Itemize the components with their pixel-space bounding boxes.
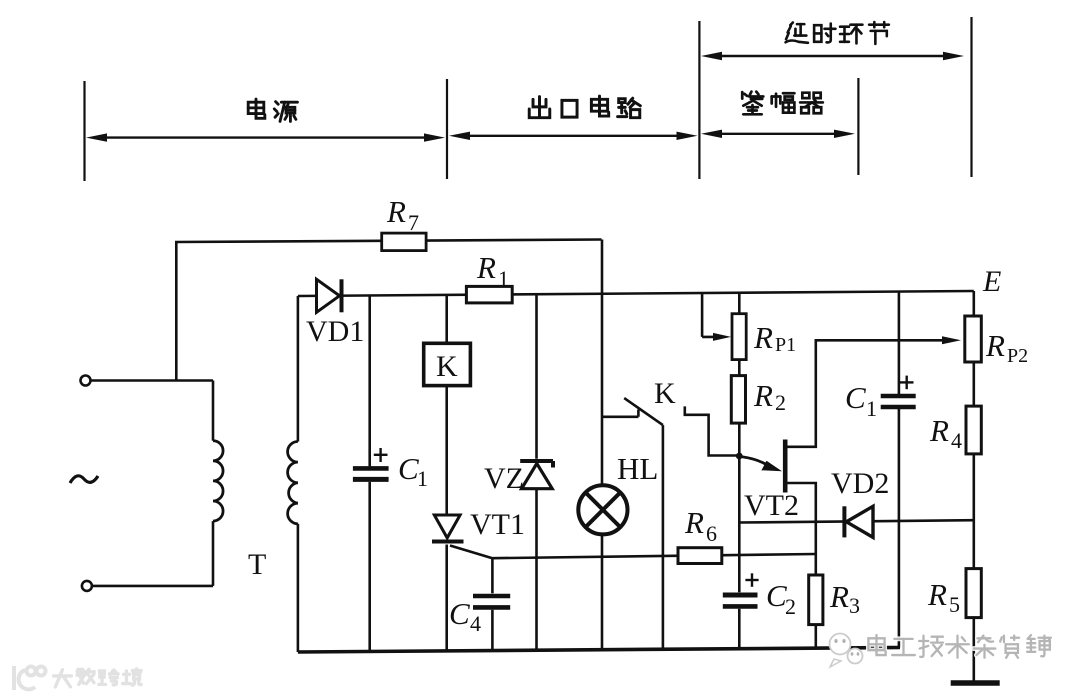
zener VZ [520, 461, 553, 489]
wire HL rail [601, 240, 604, 650]
wire R7 top run [176, 240, 601, 381]
resistor R2 [731, 376, 745, 424]
wire R3 rail [814, 554, 817, 648]
tick T1 [83, 81, 85, 181]
junction dot [736, 453, 743, 460]
watermark right wechat icon [830, 634, 863, 668]
relay coil K box [424, 343, 471, 385]
svg-text:K: K [654, 377, 676, 410]
svg-text:3: 3 [849, 593, 860, 618]
wire K-switch right drop [662, 425, 665, 649]
watermark left logo [14, 666, 46, 690]
thyristor VT1 [432, 515, 464, 542]
svg-text:VZ: VZ [484, 462, 524, 495]
svg-text:VT1: VT1 [470, 508, 525, 541]
label 鉴幅器 [742, 92, 823, 115]
svg-text:4: 4 [470, 611, 481, 636]
resistor R3 [809, 575, 823, 625]
wire VT1 gate diagonal [450, 546, 492, 559]
AC tilde [70, 476, 98, 483]
resistor R6 [678, 548, 722, 564]
svg-text:VT2: VT2 [744, 489, 799, 522]
svg-text:T: T [248, 548, 266, 581]
svg-text:VD2: VD2 [831, 467, 889, 500]
terminal circle top [81, 376, 91, 386]
wire RP1 wiper stub [702, 293, 716, 337]
wire VD2 line [739, 520, 974, 522]
svg-text:1: 1 [866, 396, 877, 421]
lamp HL [578, 485, 627, 534]
svg-text:R: R [753, 320, 773, 355]
svg-text:5: 5 [949, 592, 960, 617]
tick T3 [698, 21, 700, 179]
capacitor C1 right [881, 376, 916, 407]
label 出口电路 [529, 96, 640, 118]
dimension arrow 鉴幅器 [701, 130, 855, 138]
watermark left text 大数跨境 [54, 669, 141, 687]
svg-text:2: 2 [775, 390, 786, 415]
svg-text:HL: HL [617, 451, 658, 486]
svg-text:R: R [386, 194, 406, 229]
wire E rail [972, 291, 975, 683]
ground bar [951, 680, 1000, 686]
svg-text:R: R [927, 577, 947, 612]
dimension arrow 出口电路 [449, 132, 698, 140]
svg-text:VD1: VD1 [306, 315, 364, 348]
svg-text:C: C [766, 578, 787, 613]
terminal circle bottom [82, 581, 92, 591]
svg-text:R: R [829, 579, 849, 614]
svg-text:R: R [929, 413, 949, 448]
resistor R7 [382, 233, 426, 251]
wire primary bottom lead [212, 521, 215, 586]
svg-text:R: R [684, 505, 704, 540]
svg-text:R: R [985, 328, 1005, 363]
svg-text:2: 2 [785, 594, 796, 619]
wire secondary bottom lead [297, 524, 300, 652]
potentiometer RP1 [732, 314, 746, 360]
capacitor C4 [473, 596, 510, 607]
svg-text:E: E [982, 265, 1001, 298]
wire main bus [298, 291, 974, 296]
tick T5 [970, 17, 972, 177]
svg-text:7: 7 [408, 210, 419, 235]
tick T4 [857, 78, 859, 175]
wire C1-left rail [368, 296, 371, 652]
wire bottom terminal [92, 585, 213, 588]
svg-text:6: 6 [706, 521, 717, 546]
svg-text:P2: P2 [1007, 345, 1028, 367]
RP2 wiper arrowhead [942, 336, 961, 344]
wire VT2 collector to RP2 wiper [785, 340, 944, 447]
transistor VT2 [742, 440, 785, 493]
svg-text:1: 1 [498, 266, 509, 291]
potentiometer RP2 [965, 316, 982, 362]
svg-text:C: C [449, 596, 470, 631]
svg-text:P1: P1 [775, 334, 796, 356]
transformer T secondary winding [288, 442, 298, 524]
diode VD2 [844, 506, 873, 537]
transformer T primary winding [213, 441, 223, 521]
dimension arrow 电源 [86, 133, 445, 141]
svg-text:C: C [398, 451, 419, 486]
RP1 wiper arrowhead [713, 333, 731, 341]
wire K switch to junction [685, 406, 740, 455]
svg-text:R: R [753, 378, 773, 413]
wire top terminal [90, 379, 213, 382]
svg-text:R: R [476, 250, 496, 285]
label 电源 [248, 99, 297, 121]
resistor R4 [966, 406, 981, 454]
tick T2 [446, 79, 448, 179]
wire K switch stub and blade [602, 398, 663, 425]
wire bottom rail [298, 648, 900, 653]
resistor R1 [466, 286, 512, 303]
capacitor C2 [723, 573, 759, 606]
wire RP1/R2 rail [738, 293, 741, 649]
wire VZ rail [535, 294, 538, 650]
svg-text:C: C [845, 380, 866, 415]
wire R6 gate line [492, 554, 815, 558]
diode VD1 [317, 279, 342, 312]
watermark right text 电工技术杂货铺 [868, 635, 1051, 658]
resistor R5 [966, 569, 981, 618]
capacitor C1 left [353, 448, 389, 479]
wire C4 drop [491, 558, 494, 650]
wire C1-right rail [898, 292, 901, 648]
wire secondary top lead [297, 296, 300, 442]
svg-text:1: 1 [417, 466, 428, 491]
label 延时环节 [786, 22, 889, 44]
wire K relay rail [445, 295, 448, 651]
dimension arrow 延时环节 [701, 52, 964, 60]
svg-text:4: 4 [951, 428, 962, 453]
wire primary top lead [212, 381, 215, 441]
wire VT2 emitter lead [785, 483, 816, 554]
svg-text:K: K [436, 350, 458, 383]
